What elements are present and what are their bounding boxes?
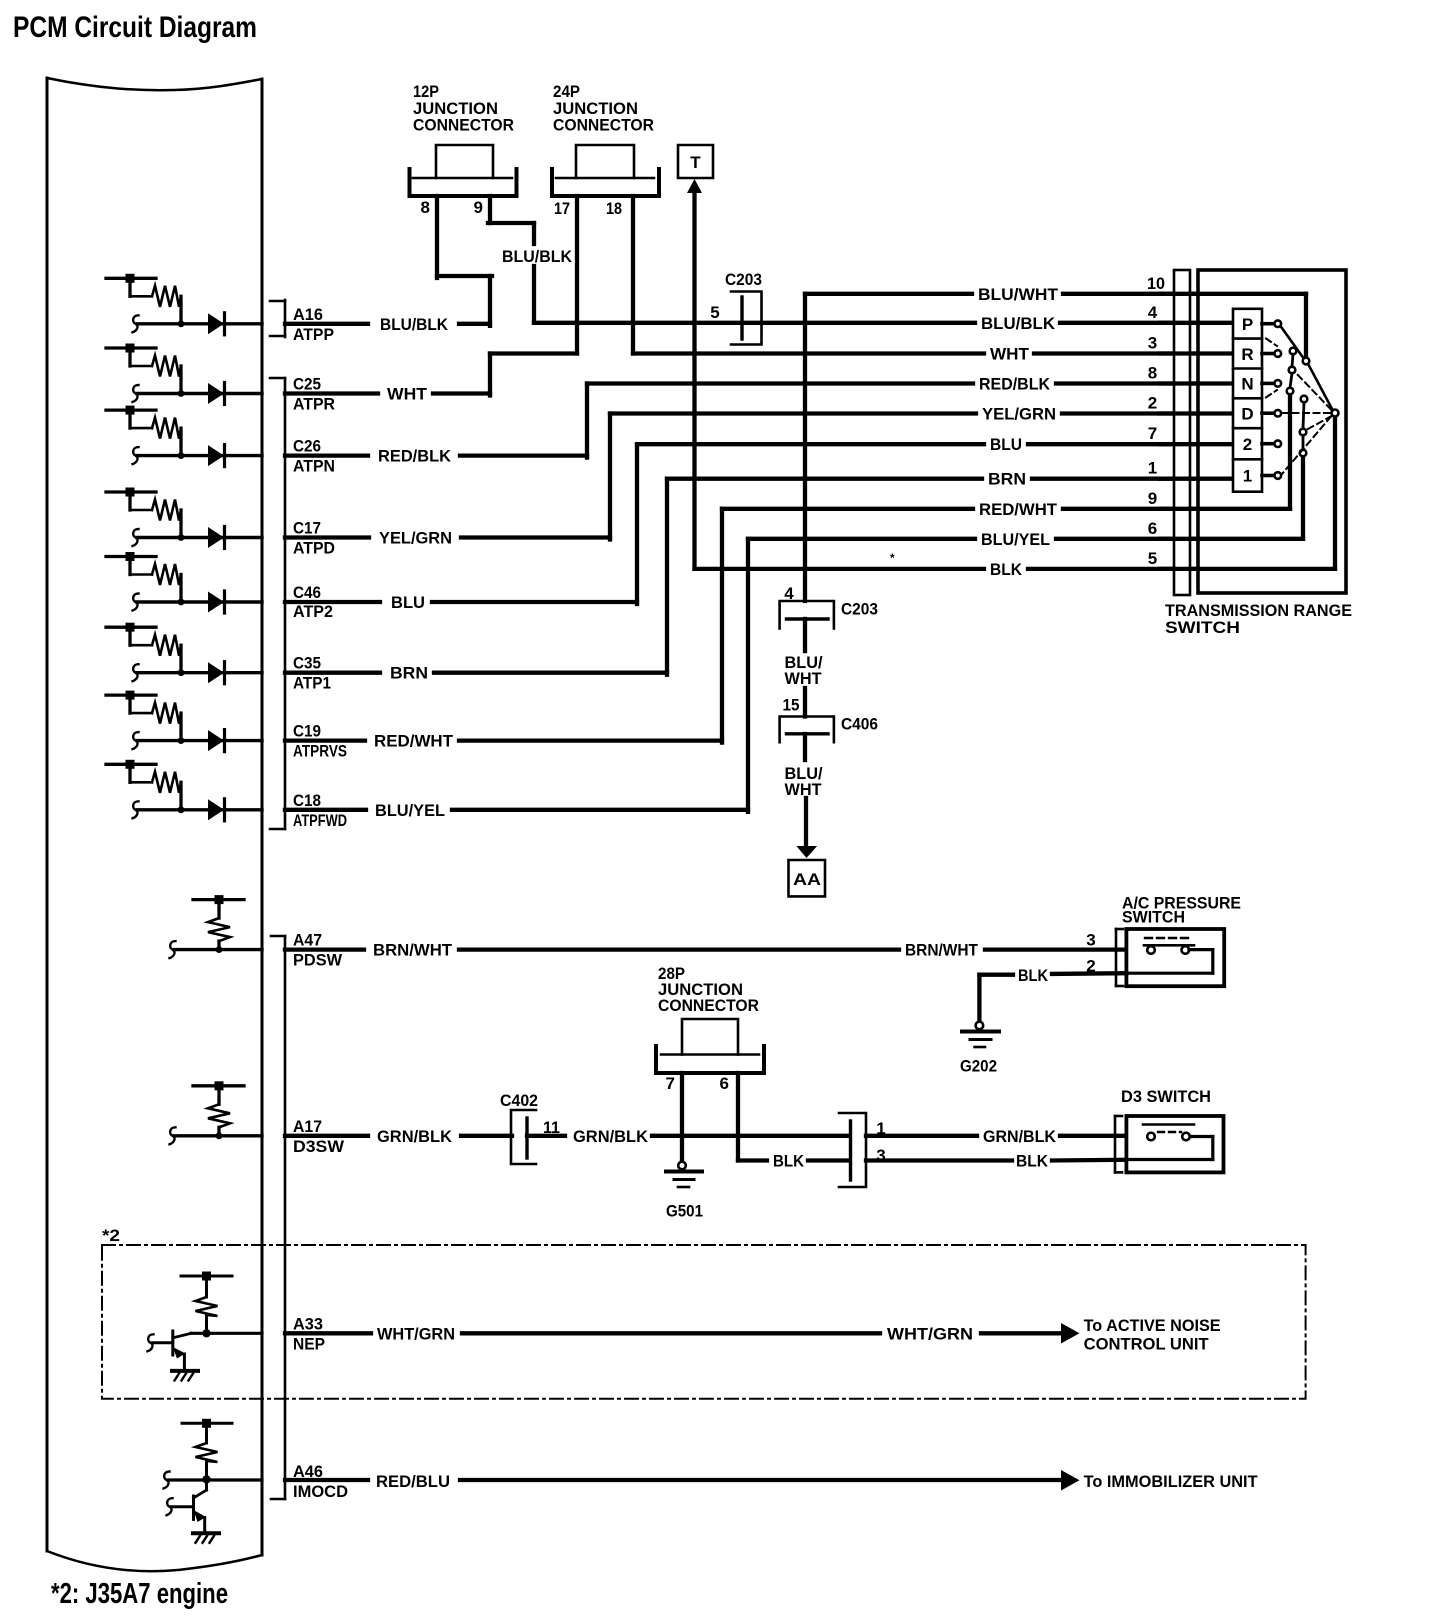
- svg-text:YEL/GRN: YEL/GRN: [982, 405, 1056, 424]
- pin label A47/PDSW: [293, 931, 343, 970]
- svg-text:G501: G501: [666, 1202, 703, 1221]
- svg-text:RED/WHT: RED/WHT: [374, 732, 454, 751]
- wire RED/BLU from A46 to immobilizer unit: [285, 1470, 1258, 1491]
- svg-text:BLU: BLU: [391, 593, 425, 612]
- svg-text:YEL/GRN: YEL/GRN: [379, 529, 452, 548]
- svg-text:RED/BLU: RED/BLU: [376, 1472, 450, 1491]
- svg-text:C18: C18: [293, 791, 321, 810]
- connector A lower pin group bracket (A47-A46): [271, 936, 285, 1499]
- PCM driver circuit (resistor + diode) for C17 ATPD: [106, 488, 262, 549]
- svg-text:PDSW: PDSW: [293, 951, 343, 970]
- svg-text:9: 9: [1148, 489, 1157, 508]
- svg-text:1: 1: [1148, 459, 1157, 478]
- wire row YEL/GRN from C17 to transmission pin 2: [285, 394, 1233, 548]
- pin label C19/ATPRVS: [293, 722, 347, 761]
- svg-text:C19: C19: [293, 722, 321, 741]
- svg-text:BLK: BLK: [1016, 1152, 1049, 1171]
- svg-text:10: 10: [1147, 274, 1165, 293]
- svg-text:CONNECTOR: CONNECTOR: [413, 116, 514, 135]
- wire row RED/WHT from C19 to transmission pin 9: [285, 394, 1290, 751]
- wire BLU/WHT arrow to AA: [785, 734, 823, 858]
- svg-text:C25: C25: [293, 375, 321, 394]
- svg-text:GRN/BLK: GRN/BLK: [983, 1127, 1057, 1146]
- svg-text:BLU/BLK: BLU/BLK: [502, 247, 573, 266]
- switch position contacts: [1262, 320, 1281, 478]
- pin label C46/ATP2: [293, 583, 333, 621]
- PCM driver circuit (resistor + diode) for C26 ATPN: [106, 406, 262, 467]
- pin label C18/ATPFWD: [293, 791, 347, 830]
- svg-text:BLK: BLK: [773, 1152, 805, 1171]
- wire BLU/BLK from A16 to 12P pin 8: [285, 196, 492, 334]
- svg-text:BRN: BRN: [988, 470, 1026, 489]
- svg-text:To ACTIVE NOISE: To ACTIVE NOISE: [1084, 1316, 1221, 1335]
- pin label C26/ATPN: [293, 437, 335, 476]
- PCM internal ground (A33 emitter): [172, 1371, 198, 1381]
- note *2 J35A7 engine: [51, 1578, 228, 1610]
- connector C203 pin 4: [780, 600, 878, 629]
- svg-text:C203: C203: [841, 600, 878, 619]
- pin label A17/D3SW: [293, 1117, 345, 1156]
- wire GRN/BLK from C402 to D3 switch pin 1: [527, 1119, 1147, 1146]
- transmission range switch box: [1165, 270, 1352, 637]
- svg-text:1: 1: [1243, 467, 1252, 486]
- svg-text:CONNECTOR: CONNECTOR: [658, 996, 759, 1015]
- svg-text:A33: A33: [293, 1314, 323, 1333]
- PCM pull-up resistor circuit for A47 PDSW: [170, 895, 263, 958]
- svg-text:C203: C203: [725, 270, 762, 289]
- svg-text:2: 2: [1086, 957, 1095, 976]
- svg-text:SWITCH: SWITCH: [1165, 618, 1240, 637]
- svg-text:3: 3: [1086, 931, 1095, 950]
- D3 switch: [1115, 1087, 1224, 1172]
- svg-text:D3SW: D3SW: [293, 1137, 345, 1156]
- svg-text:ATPRVS: ATPRVS: [293, 742, 347, 761]
- svg-text:WHT/GRN: WHT/GRN: [377, 1324, 455, 1343]
- dashed box *2 (J35A7 engine only): [102, 1226, 1306, 1399]
- svg-text:RED/BLK: RED/BLK: [979, 375, 1051, 394]
- svg-text:C46: C46: [293, 583, 321, 602]
- svg-text:*2: *2: [102, 1226, 120, 1245]
- svg-text:6: 6: [1148, 519, 1157, 538]
- svg-text:ATP2: ATP2: [293, 602, 333, 621]
- 24P junction connector: [552, 82, 659, 218]
- svg-text:BRN: BRN: [390, 664, 428, 683]
- svg-text:G202: G202: [960, 1057, 997, 1076]
- svg-text:18: 18: [606, 199, 622, 218]
- wire BLK from T to transmission pin 5: [687, 179, 1335, 579]
- svg-text:CONNECTOR: CONNECTOR: [553, 116, 654, 135]
- svg-text:RED/BLK: RED/BLK: [378, 447, 452, 466]
- wire BLK from 2P connector to D3 switch pin 3: [866, 1152, 1126, 1171]
- svg-text:*: *: [890, 551, 895, 565]
- svg-text:IMOCD: IMOCD: [293, 1482, 348, 1501]
- svg-text:R: R: [1241, 345, 1253, 364]
- svg-text:17: 17: [554, 199, 570, 218]
- switch middle contact (pin 10 drop): [1303, 358, 1310, 365]
- pin label A46/IMOCD: [293, 1462, 348, 1501]
- svg-text:ATPR: ATPR: [293, 395, 335, 414]
- PCM pull-up resistor circuit for A17 D3SW: [170, 1081, 263, 1144]
- svg-text:C402: C402: [500, 1091, 538, 1110]
- svg-text:C17: C17: [293, 519, 321, 538]
- svg-text:BLK: BLK: [1018, 966, 1049, 985]
- PCM driver circuit (resistor + diode) for C25 ATPR: [106, 344, 262, 405]
- wiper dashed alternate positions: [1266, 339, 1332, 475]
- svg-text:C35: C35: [293, 654, 321, 673]
- PCM transistor circuit for A33 NEP: [148, 1272, 263, 1370]
- svg-text:BLK: BLK: [990, 560, 1023, 579]
- switch middle contacts column 2: [1300, 396, 1308, 457]
- svg-text:ATPD: ATPD: [293, 539, 335, 558]
- title: [13, 11, 257, 44]
- svg-text:4: 4: [1148, 303, 1158, 322]
- svg-text:A16: A16: [293, 305, 323, 324]
- wire row BLU/YEL from C18 to transmission pin 6: [285, 456, 1303, 820]
- wire row BLU/BLK to transmission pin 4: [534, 303, 1233, 333]
- svg-text:BRN/WHT: BRN/WHT: [373, 941, 453, 960]
- PCM driver circuit (resistor + diode) for C35 ATP1: [106, 623, 262, 684]
- svg-text:WHT: WHT: [785, 780, 823, 799]
- svg-text:BLU/BLK: BLU/BLK: [380, 315, 449, 334]
- 12P junction connector: [410, 82, 517, 217]
- svg-text:2: 2: [1243, 435, 1252, 454]
- svg-text:WHT: WHT: [990, 345, 1030, 364]
- svg-text:PCM Circuit Diagram: PCM Circuit Diagram: [13, 11, 257, 44]
- transmission range switch connector strip: [1174, 270, 1190, 595]
- svg-text:ATPP: ATPP: [293, 325, 334, 344]
- connector C pin group bracket (C25-C18): [270, 378, 285, 829]
- svg-text:*2: J35A7 engine: *2: J35A7 engine: [51, 1578, 228, 1610]
- wire WHT/GRN from A33 to active noise control unit: [285, 1316, 1221, 1354]
- wire row RED/BLK from C26 to transmission pin 8: [285, 364, 1233, 466]
- svg-text:3: 3: [1148, 334, 1157, 353]
- wire BLK from A/C pressure switch pin 2 to G202: [979, 957, 1126, 1022]
- svg-text:5: 5: [1148, 549, 1157, 568]
- PCM internal ground (A46 emitter): [193, 1533, 219, 1543]
- PCM driver circuit (resistor + diode) for A16 ATPP: [106, 274, 262, 335]
- svg-text:WHT: WHT: [785, 669, 823, 688]
- wire row BLU from C46 to transmission pin 7: [285, 424, 1233, 612]
- svg-text:AA: AA: [793, 870, 821, 889]
- switch middle contacts column 1: [1287, 348, 1297, 395]
- PCM driver circuit (resistor + diode) for C18 ATPFWD: [106, 760, 262, 821]
- svg-text:BRN/WHT: BRN/WHT: [905, 941, 979, 960]
- svg-text:A47: A47: [293, 931, 322, 950]
- switch common contact: [1332, 410, 1339, 417]
- svg-text:D3 SWITCH: D3 SWITCH: [1121, 1087, 1211, 1106]
- svg-text:WHT/GRN: WHT/GRN: [887, 1324, 973, 1343]
- PCM transistor circuit for A46 IMOCD: [164, 1419, 263, 1532]
- svg-text:To IMMOBILIZER UNIT: To IMMOBILIZER UNIT: [1084, 1472, 1259, 1491]
- svg-text:N: N: [1241, 375, 1253, 394]
- A/C pressure switch: [1116, 894, 1241, 987]
- svg-text:BLU/BLK: BLU/BLK: [981, 314, 1056, 333]
- connector C203 pin 5: [710, 270, 762, 345]
- wiper solid path P position: [1281, 326, 1333, 410]
- svg-text:7: 7: [666, 1074, 675, 1093]
- svg-text:BLU/WHT: BLU/WHT: [978, 285, 1059, 304]
- svg-text:9: 9: [474, 198, 483, 217]
- svg-text:BLU: BLU: [990, 435, 1022, 454]
- wire row BRN from C35 to transmission pin 1: [285, 459, 1233, 683]
- PCM driver circuit (resistor + diode) for C19 ATPRVS: [106, 691, 262, 752]
- svg-text:15: 15: [783, 696, 800, 715]
- 2P connector near D3 switch: [839, 1113, 886, 1187]
- svg-text:RED/WHT: RED/WHT: [979, 500, 1058, 519]
- wire WHT from C25 to 24P pin 17: [285, 196, 577, 404]
- wire row BLU/WHT transmission pin 10: [805, 274, 1306, 358]
- svg-text:5: 5: [710, 303, 719, 322]
- svg-text:7: 7: [1148, 424, 1157, 443]
- wire GRN/BLK from A17 to C402: [285, 1127, 512, 1146]
- svg-text:WHT: WHT: [387, 385, 428, 404]
- svg-text:2: 2: [1148, 394, 1157, 413]
- wire BLU/BLK from 12P pin 9 to C203: [488, 196, 573, 323]
- PCM module outline: [47, 78, 262, 1571]
- svg-text:6: 6: [720, 1074, 729, 1093]
- PCM driver circuit (resistor + diode) for C46 ATP2: [106, 552, 262, 613]
- svg-text:ATP1: ATP1: [293, 674, 331, 693]
- wire row WHT from 24P pin 18 to transmission pin 3: [633, 196, 1233, 364]
- ground G501: [666, 1162, 703, 1221]
- svg-text:A17: A17: [293, 1117, 322, 1136]
- pin label C17/ATPD: [293, 519, 335, 558]
- wire 28P pin 7 to ground G501: [680, 1073, 684, 1160]
- wires entering switch box: [1160, 294, 1335, 569]
- svg-text:CONTROL UNIT: CONTROL UNIT: [1084, 1335, 1210, 1354]
- svg-text:P: P: [1242, 315, 1253, 334]
- svg-text:8: 8: [421, 198, 430, 217]
- pin label C25/ATPR: [293, 375, 335, 414]
- ground G202: [960, 1022, 999, 1076]
- svg-text:C26: C26: [293, 437, 321, 456]
- connector C406 pin 15: [780, 714, 878, 742]
- 28P junction connector: [656, 964, 764, 1093]
- wire BLU/WHT between C203 and C406: [783, 619, 823, 717]
- svg-text:SWITCH: SWITCH: [1122, 908, 1185, 927]
- svg-text:ATPFWD: ATPFWD: [293, 811, 347, 830]
- gear position cells P R N D 2 1: [1233, 309, 1262, 492]
- connector C402 pin 11: [500, 1091, 560, 1164]
- pin label C35/ATP1: [293, 654, 331, 693]
- svg-text:GRN/BLK: GRN/BLK: [573, 1127, 649, 1146]
- svg-text:BLU/YEL: BLU/YEL: [981, 530, 1050, 549]
- svg-text:BLU/YEL: BLU/YEL: [375, 801, 445, 820]
- svg-text:ATPN: ATPN: [293, 457, 335, 476]
- svg-text:D: D: [1241, 404, 1253, 423]
- wire BRN/WHT from A47 to A/C pressure switch pin 3: [285, 931, 1147, 960]
- connector pin A16 bracket: [270, 300, 285, 337]
- svg-text:C406: C406: [841, 714, 878, 733]
- svg-text:T: T: [690, 153, 701, 172]
- svg-text:8: 8: [1148, 364, 1157, 383]
- pin label A33/NEP: [293, 1314, 325, 1353]
- node AA box: [789, 860, 826, 896]
- pin label A16/ATPP: [293, 305, 334, 344]
- svg-text:GRN/BLK: GRN/BLK: [377, 1127, 453, 1146]
- wire BLK from D3 switch pin 3 to 28P pin 6: [738, 1073, 847, 1171]
- wire BLU/WHT vertical to C203 pin 4: [784, 294, 805, 603]
- connector T box: [678, 145, 713, 178]
- svg-text:NEP: NEP: [293, 1334, 325, 1353]
